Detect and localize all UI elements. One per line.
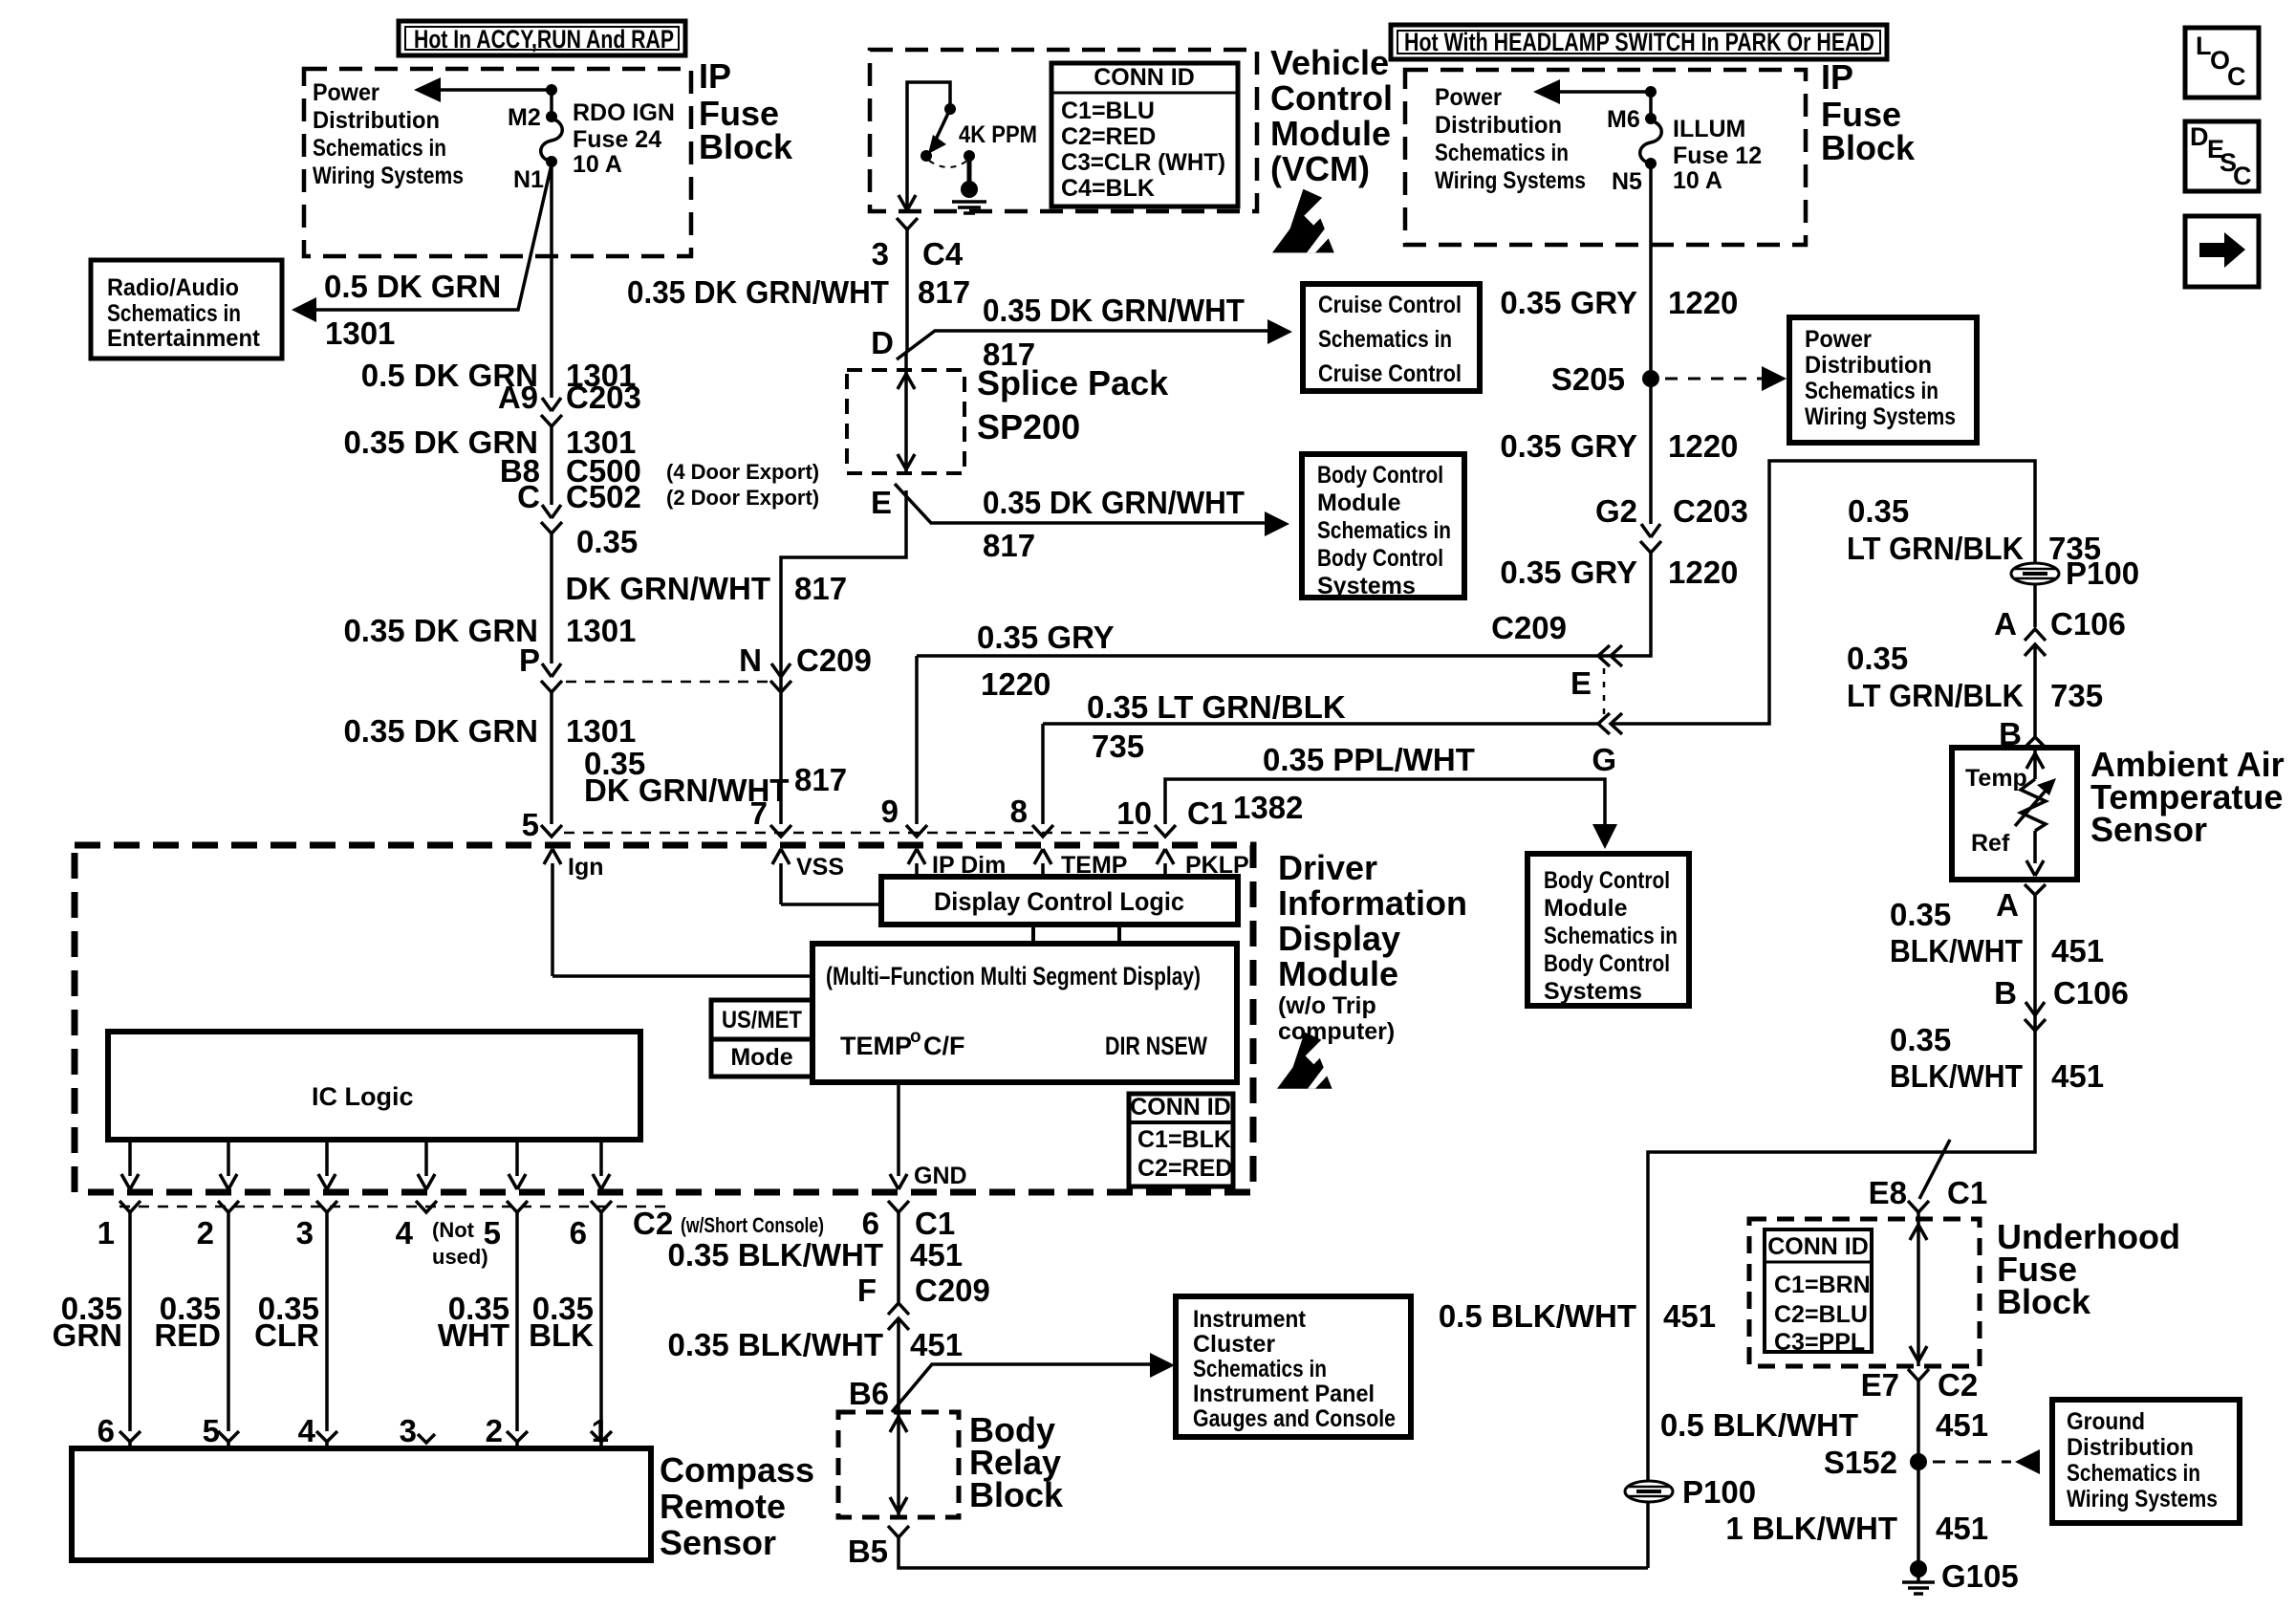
svg-text:Instrument: Instrument — [1193, 1306, 1307, 1333]
switch arm arrow — [935, 109, 950, 141]
svg-text:P100: P100 — [1682, 1474, 1756, 1510]
svg-text:451: 451 — [1936, 1407, 1988, 1443]
svg-text:VSS: VSS — [796, 854, 844, 881]
svg-text:735: 735 — [2050, 678, 2103, 713]
svg-text:Body Control: Body Control — [1544, 867, 1670, 894]
svg-text:0.5 DK GRN: 0.5 DK GRN — [324, 269, 501, 304]
svg-text:GND: GND — [914, 1163, 967, 1189]
svg-text:Entertainment: Entertainment — [107, 325, 261, 352]
svg-text:G2: G2 — [1595, 493, 1637, 529]
connector C106 pin A symbol (up) — [2025, 629, 2046, 656]
wire A to B (sensor) — [2033, 644, 2037, 737]
svg-text:Display: Display — [1278, 919, 1400, 958]
compass pin stubs — [130, 1442, 601, 1448]
svg-text:F: F — [857, 1273, 877, 1308]
svg-text:TEMP: TEMP — [840, 1032, 912, 1060]
wire labels 0.35 GRN RED CLR WHT BLK — [53, 1291, 595, 1353]
svg-text:1: 1 — [97, 1215, 115, 1251]
svg-text:C3=PPL: C3=PPL — [1774, 1329, 1865, 1356]
pin 7 chevron — [770, 825, 791, 837]
pin E7 chevron — [1908, 1369, 1929, 1381]
label Compass Remote Sensor — [660, 1450, 814, 1562]
compass sensor wires — [130, 1212, 601, 1431]
svg-text:D: D — [871, 325, 894, 360]
splice node S205 — [1642, 370, 1659, 387]
svg-text:Distribution: Distribution — [313, 107, 440, 134]
svg-text:N5: N5 — [1612, 168, 1642, 195]
svg-text:C/F: C/F — [923, 1032, 965, 1060]
svg-text:0.35 DK GRN/WHT: 0.35 DK GRN/WHT — [983, 293, 1245, 328]
svg-text:0.35 GRY: 0.35 GRY — [1500, 428, 1637, 464]
svg-text:C4=BLK: C4=BLK — [1061, 175, 1155, 202]
svg-text:IP: IP — [699, 56, 731, 96]
svg-text:Cruise Control: Cruise Control — [1318, 360, 1462, 387]
svg-text:C1=BLU: C1=BLU — [1061, 98, 1155, 124]
wire junction to M2 — [550, 90, 553, 113]
ESD symbol (VCM) — [1272, 189, 1334, 253]
svg-text:Wiring Systems: Wiring Systems — [313, 163, 464, 189]
svg-text:Power: Power — [313, 79, 379, 106]
svg-text:C1: C1 — [915, 1206, 955, 1241]
relay arrow up — [890, 1417, 907, 1432]
arrowhead into BCM lower box — [1592, 824, 1617, 849]
4K PPM sender wire — [907, 82, 950, 208]
svg-text:C: C — [517, 479, 540, 514]
svg-text:Block: Block — [969, 1475, 1064, 1514]
node junction at fuse 12 top — [1645, 86, 1657, 98]
pin TEMP arrow — [1034, 849, 1051, 878]
svg-text:Schematics in: Schematics in — [1317, 517, 1451, 544]
label RDO IGN Fuse 24 10 A — [573, 99, 675, 178]
compass pin chevrons bottom — [119, 1431, 612, 1443]
svg-text:451: 451 — [910, 1237, 963, 1273]
svg-text:0.35 BLK/WHT: 0.35 BLK/WHT — [667, 1327, 883, 1362]
connector C203 symbol — [541, 398, 562, 426]
svg-text:Schematics in: Schematics in — [313, 135, 446, 162]
grommet P100 (right) — [2011, 563, 2059, 584]
svg-text:8: 8 — [1010, 794, 1028, 829]
svg-text:4: 4 — [396, 1215, 414, 1251]
svg-text:6: 6 — [570, 1215, 587, 1251]
wire A9 to B8 — [550, 426, 553, 505]
underhood fuse block dashed box — [1749, 1219, 1980, 1366]
svg-text:Cruise Control: Cruise Control — [1318, 292, 1462, 318]
pin 10 chevron — [1155, 825, 1176, 837]
svg-text:(w/Short Console): (w/Short Console) — [681, 1213, 824, 1237]
svg-text:0.35 PPL/WHT: 0.35 PPL/WHT — [1263, 742, 1475, 777]
svg-text:Information: Information — [1278, 883, 1467, 923]
svg-text:0.35: 0.35 — [1848, 493, 1909, 529]
svg-text:0.5 BLK/WHT: 0.5 BLK/WHT — [1660, 1407, 1858, 1443]
CONN ID box (DIDM) — [1129, 1094, 1233, 1186]
wire VSS to logic — [781, 903, 881, 906]
svg-text:P100: P100 — [2066, 555, 2139, 591]
svg-text:Mode: Mode — [730, 1044, 792, 1071]
svg-text:Systems: Systems — [1544, 978, 1642, 1005]
node D branch to cruise control — [897, 319, 1292, 359]
svg-text:computer): computer) — [1278, 1018, 1395, 1045]
svg-text:RDO IGN: RDO IGN — [573, 99, 675, 126]
svg-text:C: C — [2227, 62, 2246, 91]
pin PKLP arrow — [1157, 849, 1174, 878]
svg-text:C2: C2 — [1938, 1367, 1978, 1403]
svg-text:Remote: Remote — [660, 1487, 786, 1526]
switch pivot dot — [944, 103, 956, 115]
internal ground ball — [961, 181, 978, 198]
svg-text:S152: S152 — [1824, 1445, 1897, 1480]
svg-text:Body Control: Body Control — [1544, 950, 1670, 977]
svg-text:BLK/WHT: BLK/WHT — [1890, 1058, 2023, 1094]
wire C to P — [550, 533, 553, 664]
DESC legend box — [2185, 121, 2259, 191]
forward arrow legend box — [2185, 216, 2259, 287]
wire E down to jog — [781, 490, 906, 824]
pin A chevron (sensor bottom) — [2025, 884, 2046, 895]
svg-text:E: E — [1570, 665, 1592, 701]
svg-text:0.35 GRY: 0.35 GRY — [1500, 285, 1637, 320]
svg-text:Schematics in: Schematics in — [1805, 378, 1939, 404]
dashed reference arrow from S205 — [1665, 366, 1787, 391]
svg-text:0.35 BLK/WHT: 0.35 BLK/WHT — [667, 1237, 883, 1273]
svg-text:Module: Module — [1278, 954, 1398, 993]
svg-text:o: o — [910, 1027, 921, 1047]
svg-text:N: N — [739, 642, 762, 678]
svg-text:1220: 1220 — [1668, 285, 1738, 320]
svg-text:B6: B6 — [849, 1376, 889, 1411]
svg-text:817: 817 — [794, 762, 847, 797]
node B6 branch to instrument cluster — [892, 1353, 1175, 1412]
display control logic box — [881, 877, 1238, 925]
svg-text:Block: Block — [1997, 1282, 2091, 1321]
svg-text:Sensor: Sensor — [660, 1523, 776, 1562]
svg-text:Schematics in: Schematics in — [107, 300, 241, 327]
pin 5 chevron — [541, 825, 562, 837]
label IP Fuse Block (right) — [1821, 57, 1916, 167]
svg-text:1220: 1220 — [1668, 555, 1738, 590]
pin B5 chevron — [888, 1526, 909, 1537]
svg-text:451: 451 — [1936, 1511, 1988, 1546]
underhood internal arrow up — [1910, 1225, 1927, 1240]
ambient air temperature sensor box — [1952, 748, 2077, 880]
wire B5 to right riser — [899, 1537, 1648, 1568]
wire arrow to power distribution (left) — [414, 77, 552, 102]
VCM pin exit arrowhead — [899, 195, 916, 210]
svg-text:1301: 1301 — [566, 613, 636, 648]
box Radio/Audio Schematics in Entertainment — [91, 260, 282, 359]
connector C209 pin N symbol — [770, 664, 791, 692]
compass remote sensor box — [72, 1448, 651, 1560]
svg-text:G: G — [1592, 742, 1616, 777]
IC logic output wires with arrows — [121, 1140, 610, 1189]
svg-text:5: 5 — [522, 807, 539, 842]
svg-text:LT GRN/BLK: LT GRN/BLK — [1847, 678, 2024, 713]
relay arrow down — [890, 1497, 907, 1512]
svg-text:C203: C203 — [1673, 493, 1748, 529]
svg-text:C2=RED: C2=RED — [1137, 1155, 1232, 1182]
svg-text:0.35: 0.35 — [576, 524, 638, 559]
svg-text:6: 6 — [862, 1206, 879, 1241]
box Body Control Module Schematics (upper) — [1302, 454, 1464, 599]
svg-text:Instrument Panel: Instrument Panel — [1193, 1381, 1375, 1407]
svg-text:(Not: (Not — [432, 1218, 475, 1242]
svg-text:Ign: Ign — [568, 854, 604, 881]
pin IP Dim arrow — [908, 849, 925, 878]
svg-text:Module: Module — [1317, 490, 1401, 516]
pin Ign arrow — [544, 849, 561, 976]
svg-text:10 A: 10 A — [573, 151, 622, 178]
wire E7 to G105 — [1917, 1381, 1920, 1565]
box Cruise Control Schematics in Cruise Control — [1303, 284, 1480, 391]
box Power Distribution Schematics in Wiring Systems (ref) — [1789, 317, 1977, 443]
wire branch N1 to radio arrow — [306, 164, 552, 310]
svg-text:IC Logic: IC Logic — [312, 1082, 414, 1111]
pin 9 chevron — [906, 825, 927, 837]
banner Hot With HEADLAMP SWITCH In PARK Or HEAD — [1391, 25, 1887, 59]
svg-text:Radio/Audio: Radio/Audio — [107, 274, 239, 301]
svg-text:817: 817 — [983, 528, 1035, 563]
connector C203 pin G2 symbol — [1640, 524, 1661, 553]
svg-text:(w/o Trip: (w/o Trip — [1278, 992, 1376, 1019]
svg-text:3: 3 — [296, 1215, 314, 1251]
connector C209 pin E chevrons — [1598, 645, 1622, 666]
svg-text:BLK: BLK — [529, 1317, 594, 1353]
svg-text:817: 817 — [918, 274, 970, 310]
thin dashed connector line C2 (bottom pins) — [119, 1206, 669, 1208]
svg-text:4K PPM: 4K PPM — [959, 121, 1037, 148]
svg-text:C2: C2 — [633, 1206, 673, 1241]
ESD symbol (DIDM) — [1277, 1033, 1332, 1089]
svg-text:Fuse 24: Fuse 24 — [573, 126, 661, 153]
connector C209 pin P symbol — [541, 664, 562, 692]
svg-text:C1: C1 — [1187, 795, 1227, 831]
svg-text:ILLUM: ILLUM — [1673, 116, 1745, 142]
svg-text:Power: Power — [1435, 84, 1502, 111]
svg-text:A: A — [1994, 606, 2017, 642]
svg-text:(VCM): (VCM) — [1270, 149, 1370, 188]
svg-text:C: C — [2233, 162, 2252, 190]
wire GND from display — [897, 1082, 900, 1176]
splice arrow down — [898, 454, 915, 469]
svg-text:451: 451 — [2051, 1058, 2104, 1094]
svg-text:0.35 GRY: 0.35 GRY — [977, 620, 1115, 655]
svg-text:4: 4 — [298, 1413, 316, 1448]
label Body Relay Block — [969, 1410, 1064, 1514]
box Instrument Cluster Schematics — [1176, 1296, 1411, 1437]
node E8 tap slash — [1919, 1140, 1950, 1199]
body relay internal wire — [897, 1412, 900, 1517]
svg-text:0.35 DK GRN/WHT: 0.35 DK GRN/WHT — [983, 485, 1245, 520]
svg-text:Body Control: Body Control — [1317, 462, 1443, 489]
svg-text:(2 Door Export): (2 Door Export) — [666, 486, 819, 510]
svg-text:Wiring Systems: Wiring Systems — [2067, 1486, 2218, 1512]
svg-text:Module: Module — [1544, 895, 1628, 922]
svg-text:SP200: SP200 — [977, 407, 1080, 446]
svg-text:Module: Module — [1270, 114, 1391, 153]
svg-text:Distribution: Distribution — [2067, 1434, 2194, 1461]
svg-text:Systems: Systems — [1317, 573, 1416, 599]
svg-text:CONN ID: CONN ID — [1767, 1233, 1869, 1260]
svg-text:Block: Block — [699, 127, 793, 166]
svg-text:Driver: Driver — [1278, 848, 1377, 887]
svg-text:LT GRN/BLK: LT GRN/BLK — [1847, 531, 2024, 566]
svg-text:C106: C106 — [2050, 606, 2126, 642]
svg-text:0.5 BLK/WHT: 0.5 BLK/WHT — [1439, 1298, 1636, 1334]
svg-text:7: 7 — [750, 795, 768, 831]
wire junction to M6 — [1649, 92, 1653, 115]
svg-text:Body Control: Body Control — [1317, 545, 1443, 572]
svg-text:WHT: WHT — [438, 1317, 509, 1353]
svg-text:C209: C209 — [915, 1273, 990, 1308]
internal ground bars — [952, 202, 986, 213]
svg-text:3: 3 — [400, 1413, 417, 1448]
svg-text:0.35: 0.35 — [1890, 897, 1951, 932]
wire 6 to F — [897, 1212, 900, 1302]
svg-text:Vehicle: Vehicle — [1270, 43, 1389, 82]
svg-text:2: 2 — [486, 1413, 503, 1448]
stub wires logic to display — [1031, 925, 1035, 944]
svg-text:Gauges and Console: Gauges and Console — [1193, 1405, 1396, 1432]
pin E8 chevron — [1908, 1201, 1929, 1212]
svg-text:Wiring Systems: Wiring Systems — [1805, 403, 1956, 430]
svg-text:0.35 DK GRN: 0.35 DK GRN — [343, 613, 538, 648]
svg-text:Schematics in: Schematics in — [1435, 140, 1569, 166]
US/MET button box — [711, 1000, 812, 1039]
wire P to pin 5 — [550, 692, 553, 824]
IP fuse block (left) dashed outline — [304, 69, 691, 256]
pin chevrons C2 top row — [119, 1201, 612, 1212]
wire N5 down to S205 — [1649, 163, 1653, 524]
svg-text:(Multi–Function Multi Segment: (Multi–Function Multi Segment Display) — [826, 962, 1201, 990]
svg-text:1 BLK/WHT: 1 BLK/WHT — [1725, 1511, 1897, 1546]
wire pin 8 riser — [1043, 724, 1598, 824]
svg-text:BLK/WHT: BLK/WHT — [1890, 933, 2023, 968]
svg-text:0.35 DK GRN/WHT: 0.35 DK GRN/WHT — [627, 274, 889, 310]
fuse F24 RDO IGN 10A symbol — [541, 119, 563, 162]
VCM dashed outline — [870, 50, 1257, 211]
grommet P100 (left riser) — [1625, 1481, 1673, 1502]
dashed link C209 P-N — [566, 681, 768, 684]
svg-text:M6: M6 — [1607, 106, 1640, 133]
svg-text:1301: 1301 — [566, 713, 636, 749]
wire E8 into underhood block — [1917, 1212, 1920, 1366]
box Body Control Module Schematics (lower) — [1527, 854, 1689, 1006]
LOC legend box — [2185, 28, 2259, 98]
svg-text:1220: 1220 — [981, 666, 1051, 702]
Mode button box — [711, 1039, 812, 1077]
svg-text:Fuse 12: Fuse 12 — [1673, 142, 1762, 169]
splice arrow up — [898, 374, 915, 389]
connector C209 pin F symbol (up) — [888, 1303, 909, 1330]
svg-text:DIR NSEW: DIR NSEW — [1105, 1032, 1207, 1060]
svg-text:used): used) — [432, 1245, 488, 1269]
svg-text:451: 451 — [910, 1327, 963, 1362]
svg-text:CONN ID: CONN ID — [1094, 64, 1195, 91]
dashed reference arrow to S152 — [1933, 1449, 2040, 1474]
svg-text:E: E — [871, 485, 892, 520]
IC logic box — [108, 1032, 640, 1140]
svg-text:CLR: CLR — [254, 1317, 319, 1353]
svg-text:0.35 LT GRN/BLK: 0.35 LT GRN/BLK — [1087, 689, 1346, 725]
arrowhead to radio/audio — [292, 297, 316, 322]
reference text Power Distribution Schematics in Wiring Systems (left) — [313, 79, 464, 189]
connector C209 pin G chevrons — [1598, 713, 1622, 734]
pin 3 / C4 chevron — [897, 218, 918, 229]
svg-text:Sensor: Sensor — [2090, 810, 2207, 849]
label Vehicle Control Module (VCM) — [1270, 43, 1393, 188]
node junction at fuse 24 top — [546, 84, 557, 96]
connector C106 pin B symbol (down) — [2025, 1002, 2046, 1031]
svg-text:Schematics in: Schematics in — [2067, 1460, 2200, 1487]
wire G2 down to corner — [917, 553, 1651, 656]
svg-text:C502: C502 — [566, 479, 641, 514]
svg-text:GRN: GRN — [53, 1317, 122, 1353]
pin B chevron — [2025, 737, 2046, 748]
svg-text:Ground: Ground — [2067, 1408, 2145, 1435]
svg-text:735: 735 — [1092, 729, 1144, 764]
svg-text:RED: RED — [154, 1317, 221, 1353]
box Ground Distribution Schematics in Wiring Systems — [2052, 1400, 2240, 1523]
svg-text:Splice Pack: Splice Pack — [977, 363, 1169, 402]
pin 6 chevron (C1) — [888, 1201, 909, 1212]
svg-text:0.35 GRY: 0.35 GRY — [1500, 555, 1637, 590]
svg-text:(4 Door Export): (4 Door Export) — [666, 460, 819, 484]
svg-text:Hot In ACCY,RUN And RAP: Hot In ACCY,RUN And RAP — [414, 25, 674, 54]
svg-text:Block: Block — [1821, 128, 1916, 167]
svg-text:P: P — [519, 642, 540, 678]
connector C500/C502 symbol — [541, 505, 562, 533]
svg-text:C4: C4 — [922, 236, 964, 272]
svg-text:US/MET: US/MET — [722, 1007, 802, 1033]
reference text Power Distribution Schematics (right) — [1435, 84, 1586, 194]
wire temp sensor A to B5 riser — [1648, 895, 2035, 1568]
wire N1 down trunk — [550, 162, 553, 398]
svg-text:Temp: Temp — [1965, 765, 2027, 792]
svg-text:Power: Power — [1805, 326, 1872, 353]
svg-text:A9: A9 — [498, 380, 538, 415]
label Ambient Air Temperatue Sensor — [2090, 745, 2285, 849]
svg-text:E7: E7 — [1861, 1367, 1899, 1403]
svg-text:C3=CLR (WHT): C3=CLR (WHT) — [1061, 149, 1225, 176]
svg-text:C106: C106 — [2053, 975, 2129, 1011]
IP fuse block (right) dashed outline — [1405, 70, 1806, 245]
banner Hot In ACCY,RUN And RAP — [399, 21, 685, 55]
svg-text:Ref: Ref — [1971, 830, 2010, 857]
switch contact dot right — [964, 150, 975, 162]
label Underhood Fuse Block — [1997, 1217, 2180, 1321]
contact stem — [967, 156, 972, 184]
svg-text:N1: N1 — [513, 166, 544, 193]
svg-text:CONN ID: CONN ID — [1130, 1094, 1231, 1120]
svg-text:Control: Control — [1270, 78, 1393, 118]
svg-text:Distribution: Distribution — [1805, 352, 1932, 379]
svg-text:Schematics in: Schematics in — [1193, 1356, 1327, 1382]
pin VSS arrow — [772, 849, 790, 904]
svg-text:1: 1 — [592, 1413, 609, 1448]
svg-text:E8: E8 — [1869, 1175, 1907, 1210]
svg-text:817: 817 — [794, 571, 847, 606]
svg-text:0.35: 0.35 — [1847, 641, 1908, 676]
svg-text:Schematics in: Schematics in — [1318, 326, 1452, 353]
svg-text:M2: M2 — [508, 104, 541, 131]
svg-text:B5: B5 — [848, 1534, 888, 1569]
ground G105 — [1902, 1560, 1935, 1594]
svg-text:C1: C1 — [1947, 1175, 1987, 1210]
label IP Fuse Block (left) — [699, 56, 793, 166]
thin dashed connector line C1 (top pins) — [564, 832, 1154, 835]
svg-text:C2=BLU: C2=BLU — [1774, 1301, 1868, 1328]
svg-text:9: 9 — [881, 794, 899, 829]
svg-text:IP: IP — [1821, 57, 1853, 97]
